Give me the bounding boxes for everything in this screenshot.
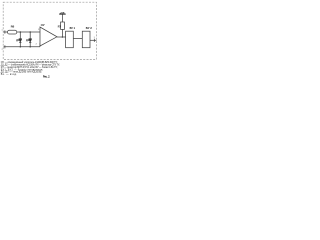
node output connector tick (93, 39, 95, 42)
wire: branch 1 vertical (19, 32, 21, 39)
wire: branch 2 lower (29, 42, 31, 47)
node junction A bottom (20, 46, 22, 48)
power rail bar (59, 13, 65, 15)
resistor Rб (8, 30, 17, 34)
block БУ2 (82, 31, 90, 48)
block БУ1 (66, 31, 74, 48)
wire: bottom rail (4, 46, 41, 48)
wire: pull-up vertical lower (61, 29, 63, 37)
node input connector tick (4, 30, 6, 33)
node junction B top (29, 31, 31, 33)
wire: БУ1 to БУ2 (73, 38, 82, 40)
svg-text:1: 1 (2, 29, 3, 31)
node bottom connector tick (4, 45, 6, 48)
wire: op-amp output (57, 36, 66, 38)
dashed enclosure border (3, 2, 96, 59)
svg-text:БУ 1: БУ 1 (70, 27, 76, 30)
wire: output to border (90, 39, 97, 41)
wire: pull-up vertical upper (61, 14, 63, 22)
svg-text:Вх. — вход.: Вх. — вход. (1, 73, 17, 76)
wire: main wire to op-amp (17, 31, 40, 33)
svg-text:2: 2 (2, 49, 3, 51)
wire: branch 2 vertical (29, 32, 31, 39)
node junction B bottom (29, 46, 31, 48)
wire: input wire from left border (4, 31, 8, 33)
resistor R7 (61, 22, 65, 29)
wire: lower input stub (39, 43, 41, 47)
svg-text:ОУ: ОУ (41, 23, 45, 27)
node junction A top (20, 31, 22, 33)
svg-text:БУ 2: БУ 2 (86, 27, 93, 30)
svg-text:+5В: +5В (60, 12, 65, 14)
diode Д1 (19, 38, 22, 40)
op-amp ОУ (40, 27, 57, 46)
svg-text:Рис. 2: Рис. 2 (43, 74, 50, 78)
diode Д2 (29, 38, 32, 40)
node output junction (62, 36, 64, 38)
svg-text:Rб: Rб (11, 25, 15, 29)
svg-text:1: 1 (94, 37, 95, 39)
wire: branch 1 lower (19, 42, 21, 47)
